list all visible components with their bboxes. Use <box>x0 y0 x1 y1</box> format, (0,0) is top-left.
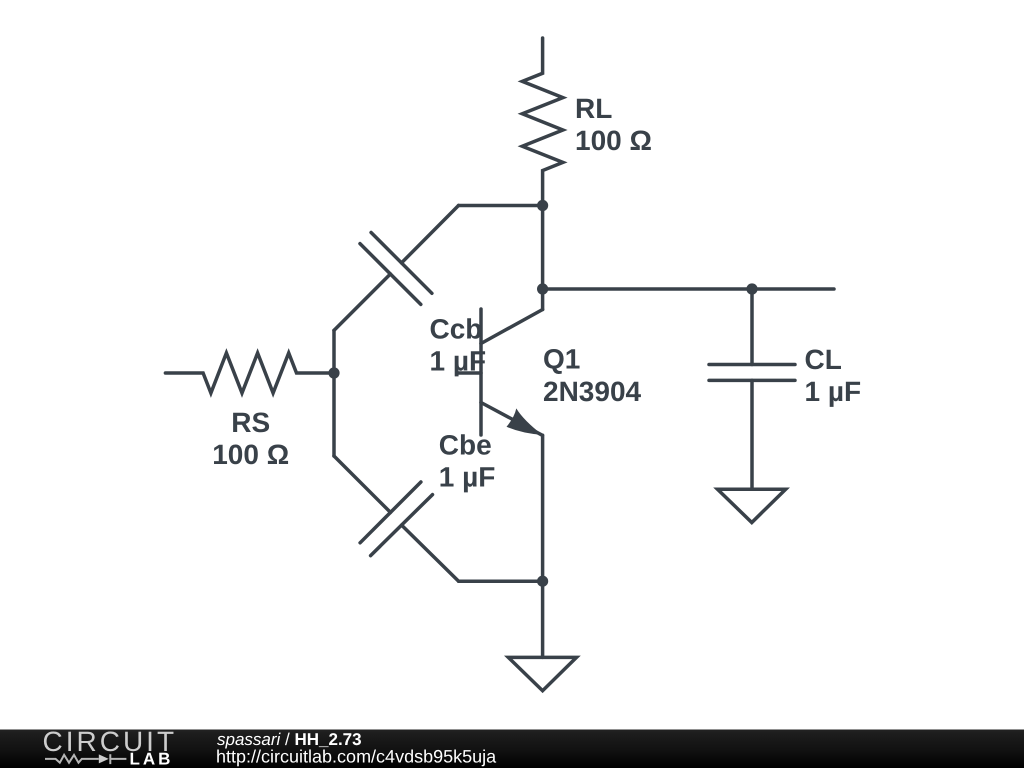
node A junction <box>537 200 548 211</box>
capacitor Cbe lead bottom <box>402 525 459 581</box>
wire emitter to node D <box>541 435 545 581</box>
capacitor CL plate 2 <box>709 379 795 383</box>
node D junction <box>537 576 548 587</box>
transistor Q1 emitter arrow <box>507 408 543 435</box>
transistor Q1 base lead <box>458 371 481 375</box>
capacitor CL lead bottom <box>750 380 754 489</box>
ground 2 <box>718 489 786 522</box>
svg-text:Ccb1 µF: Ccb1 µF <box>430 313 487 376</box>
capacitor CL plate 1 <box>709 363 795 367</box>
svg-text:Cbe1 µF: Cbe1 µF <box>439 429 496 492</box>
footer bar <box>0 730 1024 768</box>
svg-text:CL1 µF: CL1 µF <box>805 344 862 407</box>
transistor Q1 base bar <box>479 309 483 435</box>
capacitor Cbe plate 2 <box>371 495 433 556</box>
node E junction <box>746 283 757 294</box>
capacitor CL lead top <box>750 289 754 365</box>
capacitor Ccb plate 1 <box>371 233 432 294</box>
node C junction <box>328 367 339 378</box>
CircuitLab logo diode <box>99 754 109 763</box>
svg-text:RS100 Ω: RS100 Ω <box>212 407 289 470</box>
capacitor Ccb plate 2 <box>360 244 421 305</box>
transistor Q1 emitter diagonal <box>481 403 542 436</box>
svg-text:RL100 Ω: RL100 Ω <box>575 93 652 156</box>
wire node C down <box>332 373 336 456</box>
svg-text:Q12N3904: Q12N3904 <box>543 344 642 407</box>
wire node A to node B <box>541 206 545 290</box>
wire node D to ground 1 <box>541 581 545 657</box>
wire node A left <box>459 204 543 208</box>
transistor Q1 collector diagonal <box>481 310 543 344</box>
wire Ccb to node C <box>332 330 336 373</box>
transistor Q1 collector stub <box>541 289 545 310</box>
capacitor Cbe plate 1 <box>360 482 421 543</box>
wire node B to output <box>543 287 834 291</box>
wire Cbe to node D <box>459 579 543 583</box>
node B junction <box>537 283 548 294</box>
resistor RL <box>522 38 563 206</box>
capacitor Cbe lead top <box>334 456 391 512</box>
capacitor Ccb lead top <box>402 206 459 263</box>
ground 1 <box>508 657 576 690</box>
resistor RS <box>165 353 334 393</box>
capacitor Ccb lead bottom <box>334 274 390 330</box>
svg-text:LAB: LAB <box>130 750 174 768</box>
CircuitLab logo squiggle <box>45 754 126 764</box>
svg-text:http://circuitlab.com/c4vdsb95: http://circuitlab.com/c4vdsb95k5uja <box>216 747 497 767</box>
